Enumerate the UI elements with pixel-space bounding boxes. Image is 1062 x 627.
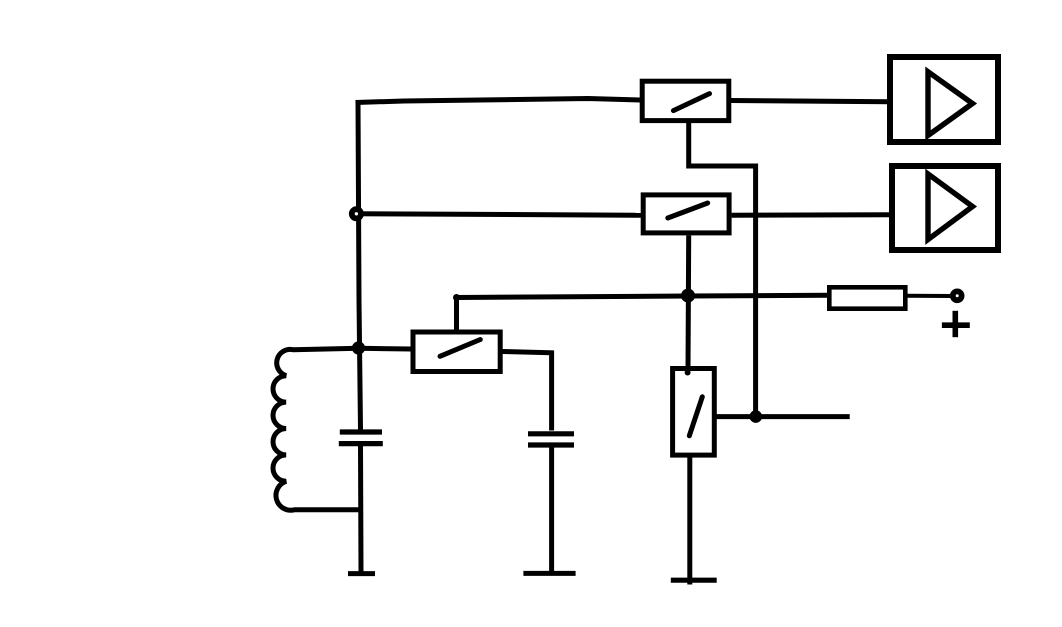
amplifier U2: [892, 166, 998, 250]
node open circle N1: [352, 209, 361, 218]
wire R2 to U2: [732, 212, 892, 217]
wire R1 wiper zigzag to node C: [689, 122, 756, 417]
ground G3: [671, 578, 717, 583]
resistor R5: [829, 287, 905, 308]
node dot at corner: [453, 294, 460, 301]
wire junction A to R3 left: [358, 346, 411, 352]
ground G1: [348, 571, 375, 576]
node dot R4 top: [685, 370, 691, 376]
trimmer R1: [642, 81, 729, 120]
junction B: [681, 289, 695, 303]
inductor L1: [273, 348, 361, 510]
wire C2 to ground: [549, 447, 554, 573]
wire top horizontal: [356, 99, 642, 103]
wire node to R2: [355, 214, 644, 216]
wire left vertical bus upper: [358, 101, 361, 430]
junction C: [750, 410, 763, 423]
capacitor C2: [528, 434, 574, 445]
wire node C horizontal right: [716, 414, 849, 419]
trimmer R2: [643, 195, 729, 233]
trimmer R3: [413, 332, 500, 372]
wire R5 to terminal: [907, 294, 953, 298]
amplifier U1: [890, 57, 998, 142]
wire R2 wiper down to R4: [686, 236, 692, 371]
capacitor C1: [339, 432, 383, 444]
trimmer R4: [673, 369, 715, 456]
wire node B horizontal to R5: [457, 295, 829, 297]
wire R4 to ground: [687, 456, 692, 585]
wire R1 to U1: [731, 101, 890, 102]
junction A: [352, 341, 365, 354]
wire R3 right to C2: [502, 352, 552, 431]
plus sign: [942, 311, 970, 337]
ground G2: [523, 571, 575, 576]
wire left vertical bus lower: [358, 446, 364, 572]
wire corner down into R3 top: [454, 296, 459, 331]
terminal circle N2: [953, 291, 962, 300]
